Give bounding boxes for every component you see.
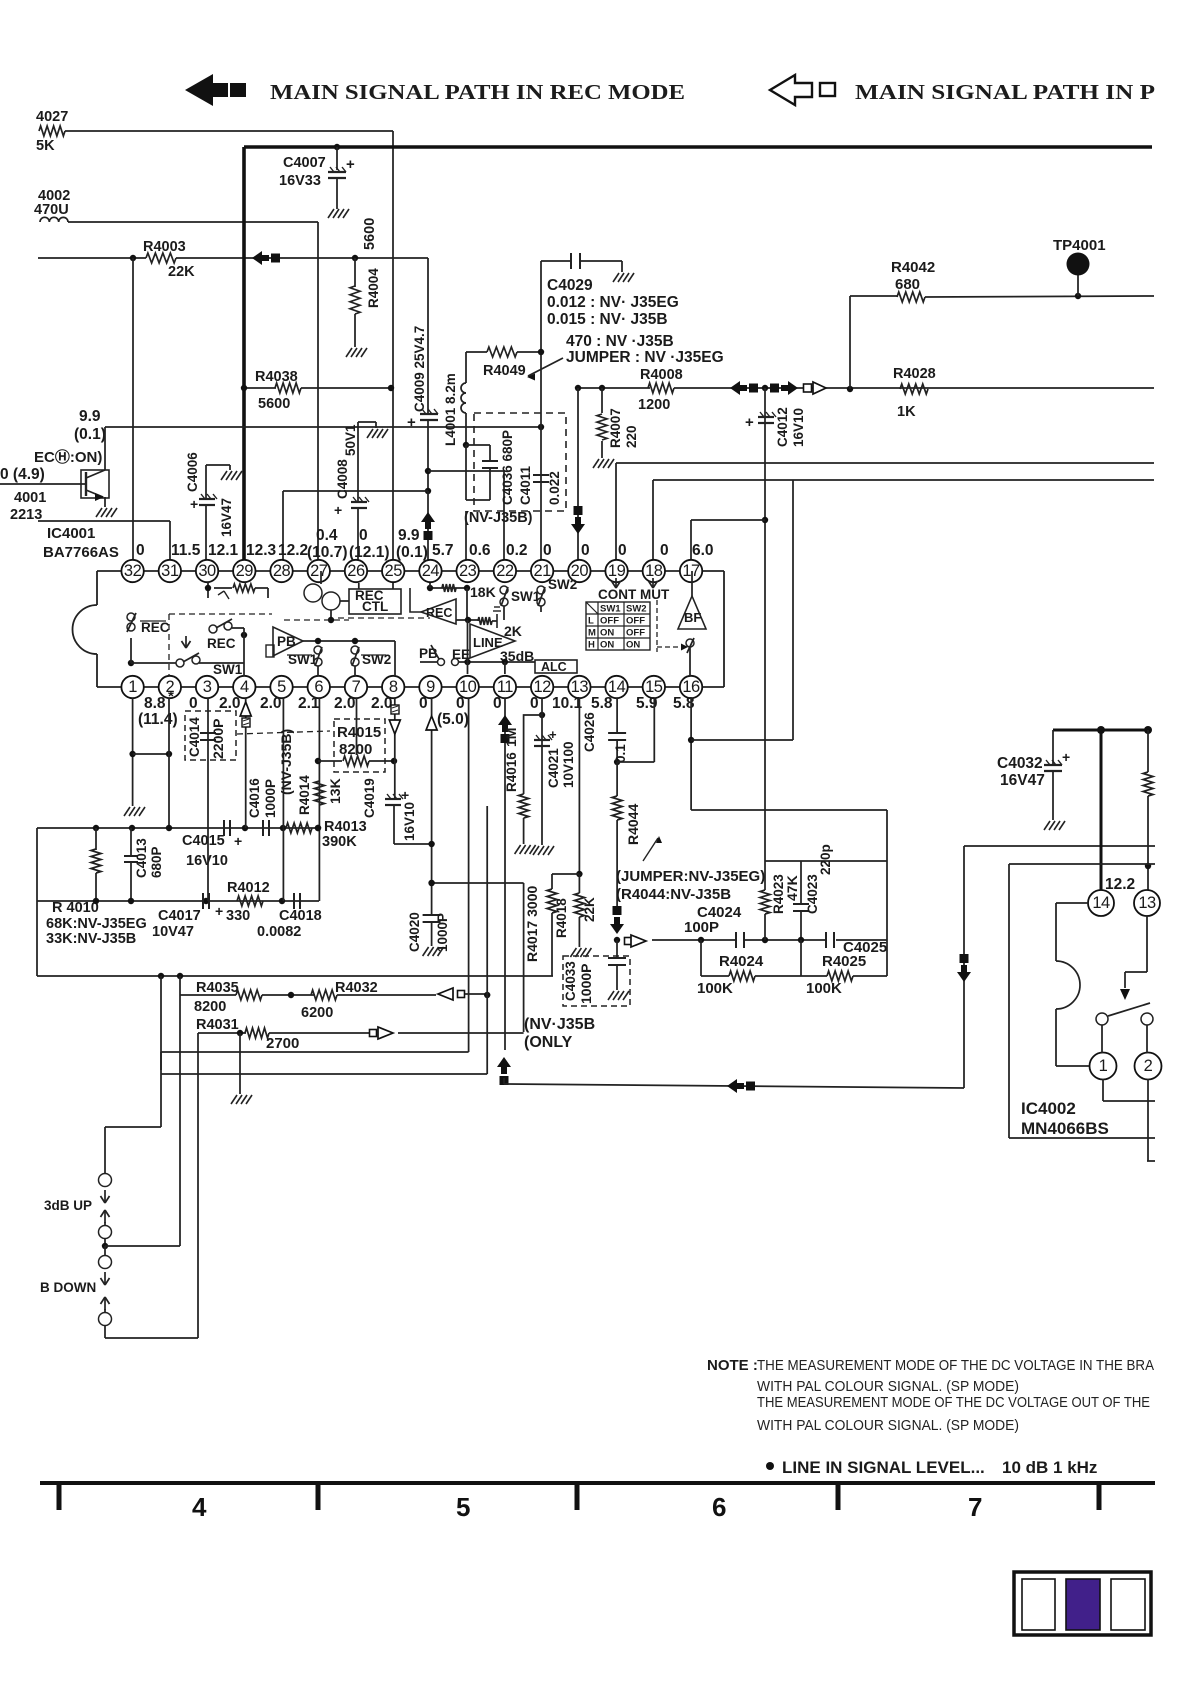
svg-text:R4012: R4012 — [227, 880, 270, 896]
svg-text:L: L — [588, 616, 594, 627]
svg-text:12.2: 12.2 — [278, 542, 308, 559]
svg-text:0: 0 — [419, 695, 428, 712]
svg-text:SW2: SW2 — [362, 652, 391, 667]
svg-text:7: 7 — [352, 678, 361, 696]
svg-text:IC4001: IC4001 — [47, 525, 95, 542]
svg-text:0.4: 0.4 — [316, 527, 338, 544]
svg-text:27: 27 — [310, 562, 328, 580]
svg-text:0.012 : NV· J35EG: 0.012 : NV· J35EG — [547, 294, 679, 311]
svg-text:R4044: R4044 — [625, 804, 641, 845]
svg-text:0: 0 — [189, 695, 198, 712]
svg-text:BF: BF — [684, 610, 701, 625]
svg-text:10.1: 10.1 — [552, 695, 583, 712]
svg-text:R 4010: R 4010 — [52, 900, 99, 916]
svg-text:1000P: 1000P — [578, 964, 594, 1004]
svg-text:9.9: 9.9 — [398, 527, 420, 544]
svg-text:31: 31 — [161, 562, 179, 580]
svg-text:1: 1 — [128, 678, 137, 696]
svg-text:CONT MUT: CONT MUT — [598, 587, 670, 602]
svg-text:R4038: R4038 — [255, 369, 298, 385]
svg-text:30: 30 — [198, 562, 216, 580]
svg-text:R4049: R4049 — [483, 363, 526, 379]
svg-text:10: 10 — [459, 678, 477, 696]
svg-text:6200: 6200 — [301, 1005, 333, 1021]
svg-text:2K: 2K — [504, 623, 522, 639]
svg-text:470 : NV ·J35B: 470 : NV ·J35B — [566, 333, 674, 350]
svg-text:(5.0): (5.0) — [437, 711, 469, 728]
svg-text:24: 24 — [422, 562, 440, 580]
svg-text:+: + — [334, 502, 342, 518]
svg-text:LINE: LINE — [473, 635, 503, 650]
svg-text:LINE IN SIGNAL LEVEL...: LINE IN SIGNAL LEVEL... — [782, 1458, 985, 1477]
svg-text:5600: 5600 — [258, 396, 290, 412]
svg-text:6.0: 6.0 — [692, 542, 714, 559]
svg-text:SW2: SW2 — [626, 604, 647, 615]
svg-text:13: 13 — [1138, 894, 1156, 912]
svg-text:18K: 18K — [470, 584, 496, 600]
svg-text:220: 220 — [624, 425, 639, 448]
svg-text:33K:NV-J35B: 33K:NV-J35B — [46, 931, 136, 947]
svg-text:32: 32 — [124, 562, 142, 580]
svg-text:2.0: 2.0 — [219, 695, 241, 712]
svg-text:C4033: C4033 — [563, 961, 578, 1001]
svg-text:B DOWN: B DOWN — [40, 1280, 96, 1295]
svg-text:H: H — [588, 640, 595, 651]
svg-text:16V33: 16V33 — [279, 173, 321, 189]
svg-text:M: M — [588, 628, 596, 639]
svg-text:MN4066BS: MN4066BS — [1021, 1119, 1109, 1138]
svg-text:4027: 4027 — [36, 109, 68, 125]
svg-text:18: 18 — [645, 562, 663, 580]
svg-text:C4008: C4008 — [335, 459, 350, 499]
svg-text:+: + — [234, 833, 242, 849]
svg-text:2213: 2213 — [10, 507, 42, 523]
svg-text:R4014: R4014 — [297, 775, 312, 815]
svg-text:+: + — [407, 414, 416, 431]
svg-text:8.8: 8.8 — [144, 695, 166, 712]
svg-text:SW1: SW1 — [213, 662, 243, 677]
svg-text:REC: REC — [141, 620, 170, 635]
svg-text:OFF: OFF — [626, 628, 645, 639]
svg-text:220p: 220p — [818, 844, 833, 875]
svg-text:4: 4 — [240, 678, 249, 696]
svg-text:26: 26 — [347, 562, 365, 580]
svg-text:C4016: C4016 — [247, 778, 262, 818]
svg-text:WITH PAL COLOUR SIGNAL. (SP MO: WITH PAL COLOUR SIGNAL. (SP MODE) — [757, 1378, 1019, 1395]
svg-text:(0.1): (0.1) — [396, 544, 428, 561]
svg-text:R4004: R4004 — [366, 268, 381, 308]
svg-text:100K: 100K — [806, 980, 842, 997]
svg-text:5: 5 — [277, 678, 286, 696]
svg-text:+: + — [549, 727, 557, 742]
svg-text:1000P: 1000P — [263, 779, 278, 818]
svg-text:(R4044:NV-J35B: (R4044:NV-J35B — [616, 886, 731, 903]
svg-text:R4031: R4031 — [196, 1017, 239, 1033]
svg-text:0: 0 — [359, 527, 368, 544]
svg-text:C4018: C4018 — [279, 908, 322, 924]
svg-text:13: 13 — [571, 678, 589, 696]
svg-text:0: 0 — [581, 542, 590, 559]
svg-text:NOTE :: NOTE : — [707, 1357, 758, 1374]
svg-text:C4032: C4032 — [997, 755, 1043, 772]
svg-text:C4006: C4006 — [185, 452, 200, 492]
svg-text:16V10: 16V10 — [402, 802, 417, 841]
svg-text:22: 22 — [496, 562, 514, 580]
svg-text:5600: 5600 — [362, 218, 378, 250]
svg-text:BA7766AS: BA7766AS — [43, 544, 119, 561]
svg-text:MAIN SIGNAL PATH IN P: MAIN SIGNAL PATH IN P — [855, 80, 1155, 104]
svg-text:OFF: OFF — [600, 616, 619, 627]
svg-text:R4016: R4016 — [504, 752, 519, 792]
svg-text:0.2: 0.2 — [506, 542, 528, 559]
svg-text:(NV-J35B): (NV-J35B) — [278, 729, 294, 795]
svg-text:11.5: 11.5 — [171, 542, 201, 559]
svg-text:SW2: SW2 — [548, 577, 577, 592]
svg-text:(0.1): (0.1) — [74, 426, 106, 443]
svg-text:0: 0 — [618, 542, 627, 559]
svg-text:25: 25 — [385, 562, 403, 580]
svg-text:REC: REC — [207, 636, 236, 651]
svg-text:MAIN SIGNAL PATH IN REC MODE: MAIN SIGNAL PATH IN REC MODE — [270, 80, 685, 104]
svg-text:(JUMPER:NV-J35EG): (JUMPER:NV-J35EG) — [616, 868, 765, 885]
svg-text:0.015 : NV· J35B: 0.015 : NV· J35B — [547, 311, 668, 328]
svg-text:22K: 22K — [168, 264, 195, 280]
svg-text:0: 0 — [493, 695, 502, 712]
svg-text:12.3: 12.3 — [246, 542, 277, 559]
svg-text:ON: ON — [600, 640, 614, 651]
svg-text:R4008: R4008 — [640, 367, 683, 383]
svg-text:C4017: C4017 — [158, 908, 201, 924]
svg-text:0.6: 0.6 — [469, 542, 491, 559]
svg-text:12: 12 — [533, 678, 551, 696]
svg-text:+: + — [215, 903, 223, 919]
svg-text:R4042: R4042 — [891, 259, 935, 276]
svg-text:+: + — [401, 787, 409, 803]
svg-text:CTL: CTL — [362, 599, 388, 614]
svg-text:+: + — [745, 414, 754, 431]
svg-text:1000P: 1000P — [435, 913, 450, 952]
svg-text:2.0: 2.0 — [260, 695, 282, 712]
svg-text:0: 0 — [530, 695, 539, 712]
svg-text:4001: 4001 — [14, 490, 46, 506]
svg-text:8: 8 — [389, 678, 398, 696]
svg-text:2.1: 2.1 — [298, 695, 320, 712]
svg-text:330: 330 — [226, 908, 250, 924]
svg-text:2: 2 — [1144, 1057, 1153, 1075]
svg-text:50V1: 50V1 — [343, 424, 358, 456]
svg-text:REC: REC — [426, 606, 452, 620]
svg-text:0 (4.9): 0 (4.9) — [0, 466, 45, 483]
svg-text:+: + — [346, 156, 355, 173]
svg-text:100P: 100P — [684, 919, 719, 936]
svg-text:47K: 47K — [784, 875, 800, 901]
svg-text:C4007: C4007 — [283, 155, 326, 171]
svg-text:0: 0 — [456, 695, 465, 712]
svg-text:14: 14 — [608, 678, 626, 696]
svg-text:8200: 8200 — [194, 999, 226, 1015]
svg-text:R4025: R4025 — [822, 953, 866, 970]
svg-text:15: 15 — [645, 678, 663, 696]
svg-text:ON: ON — [626, 640, 640, 651]
svg-text:R4003: R4003 — [143, 239, 186, 255]
svg-text:SW1: SW1 — [600, 604, 621, 615]
svg-text:23: 23 — [459, 562, 477, 580]
svg-text:IC4002: IC4002 — [1021, 1099, 1076, 1118]
svg-text:(10.7): (10.7) — [307, 544, 348, 561]
svg-text:1200: 1200 — [638, 397, 670, 413]
svg-text:6: 6 — [314, 678, 323, 696]
svg-text:16V10: 16V10 — [791, 408, 806, 447]
svg-text:ALC: ALC — [541, 660, 567, 674]
svg-text:11: 11 — [497, 678, 513, 696]
svg-text:C4013: C4013 — [134, 838, 149, 878]
svg-text:ECⒽ:ON): ECⒽ:ON) — [34, 448, 102, 466]
svg-text:C4021: C4021 — [546, 748, 561, 788]
svg-text:R4018: R4018 — [554, 898, 569, 938]
svg-text:390K: 390K — [322, 834, 357, 850]
svg-text:16: 16 — [682, 678, 700, 696]
svg-text:5: 5 — [456, 1492, 470, 1522]
svg-text:2700: 2700 — [266, 1035, 299, 1052]
svg-text:0.022: 0.022 — [547, 471, 562, 505]
svg-text:R4035: R4035 — [196, 980, 239, 996]
svg-text:22K: 22K — [582, 897, 597, 922]
svg-text:5K: 5K — [36, 138, 55, 154]
svg-text:R4024: R4024 — [719, 953, 764, 970]
svg-text:(ONLY: (ONLY — [524, 1034, 573, 1051]
svg-text:0.1: 0.1 — [613, 744, 628, 763]
svg-text:6: 6 — [712, 1492, 726, 1522]
svg-text:3dB UP: 3dB UP — [44, 1198, 92, 1213]
svg-text:R4028: R4028 — [893, 366, 936, 382]
svg-text:19: 19 — [608, 562, 626, 580]
svg-text:C4023: C4023 — [805, 874, 820, 914]
svg-text:TP4001: TP4001 — [1053, 237, 1106, 254]
svg-text:C4019: C4019 — [362, 778, 377, 818]
svg-text:7: 7 — [968, 1492, 982, 1522]
svg-text:100K: 100K — [697, 980, 733, 997]
svg-text:OFF: OFF — [626, 616, 645, 627]
svg-text:14: 14 — [1092, 894, 1110, 912]
svg-text:9: 9 — [426, 678, 435, 696]
svg-text:2.0: 2.0 — [334, 695, 356, 712]
svg-text:12.2: 12.2 — [1105, 876, 1135, 893]
svg-text:C4009 25V4.7: C4009 25V4.7 — [412, 326, 427, 412]
svg-text:+: + — [190, 496, 198, 512]
svg-text:R4007: R4007 — [608, 408, 623, 448]
svg-text:SW1: SW1 — [288, 652, 318, 667]
svg-text:C4015: C4015 — [182, 833, 225, 849]
svg-text:0: 0 — [543, 542, 552, 559]
svg-text:16V47: 16V47 — [1000, 772, 1045, 789]
svg-text:C4026: C4026 — [582, 712, 597, 752]
svg-text:2.0: 2.0 — [371, 695, 393, 712]
svg-text:68K:NV-J35EG: 68K:NV-J35EG — [46, 916, 147, 932]
svg-text:C4014: C4014 — [187, 717, 202, 757]
svg-text:C4036 680P: C4036 680P — [500, 430, 515, 505]
svg-text:0.0082: 0.0082 — [257, 924, 301, 940]
svg-text:(12.1): (12.1) — [349, 544, 390, 561]
svg-text:680P: 680P — [149, 846, 164, 878]
svg-text:10V47: 10V47 — [152, 924, 194, 940]
svg-text:10V100: 10V100 — [561, 741, 576, 788]
svg-text:(11.4): (11.4) — [138, 711, 178, 728]
svg-text:(NV·J35B: (NV·J35B — [524, 1016, 595, 1033]
svg-text:C4020: C4020 — [407, 912, 422, 952]
svg-text:R4015: R4015 — [337, 724, 381, 741]
svg-text:16V10: 16V10 — [186, 853, 228, 869]
svg-text:4: 4 — [192, 1492, 207, 1522]
svg-text:29: 29 — [236, 562, 254, 580]
svg-text:3: 3 — [203, 678, 212, 696]
svg-text:C4029: C4029 — [547, 277, 593, 294]
svg-text:1: 1 — [1099, 1057, 1108, 1075]
svg-text:2200P: 2200P — [210, 719, 226, 759]
svg-text:R4032: R4032 — [335, 980, 378, 996]
svg-text:0: 0 — [136, 542, 145, 559]
svg-text:28: 28 — [273, 562, 291, 580]
svg-text:470U: 470U — [34, 202, 69, 218]
svg-text:5.8: 5.8 — [591, 695, 613, 712]
svg-text:C4011: C4011 — [518, 465, 533, 505]
svg-text:PB: PB — [277, 634, 296, 649]
svg-text:12.1: 12.1 — [208, 542, 239, 559]
svg-text:JUMPER : NV ·J35EG: JUMPER : NV ·J35EG — [566, 349, 724, 366]
svg-text:5.7: 5.7 — [432, 542, 454, 559]
svg-text:R4017 3000: R4017 3000 — [524, 885, 540, 962]
svg-text:THE MEASUREMENT MODE OF THE DC: THE MEASUREMENT MODE OF THE DC VOLTAGE I… — [757, 1357, 1154, 1374]
svg-text:9.9: 9.9 — [79, 408, 101, 425]
svg-text:+: + — [1062, 749, 1070, 765]
svg-text:THE MEASUREMENT MODE OF THE DC: THE MEASUREMENT MODE OF THE DC VOLTAGE O… — [757, 1394, 1150, 1411]
svg-text:(NV-J35B): (NV-J35B) — [464, 510, 533, 526]
svg-text:1M: 1M — [503, 728, 519, 747]
svg-text:16V47: 16V47 — [219, 498, 234, 537]
svg-text:0: 0 — [660, 542, 669, 559]
svg-text:1K: 1K — [897, 404, 916, 420]
svg-text:13K: 13K — [327, 778, 343, 804]
svg-text:ON: ON — [600, 628, 614, 639]
svg-text:R4013: R4013 — [324, 819, 367, 835]
svg-text:WITH PAL COLOUR SIGNAL. (SP MO: WITH PAL COLOUR SIGNAL. (SP MODE) — [757, 1417, 1019, 1434]
svg-text:C4012: C4012 — [775, 407, 790, 447]
svg-text:L4001 8.2m: L4001 8.2m — [443, 373, 458, 446]
svg-text:10 dB 1 kHz: 10 dB 1 kHz — [1002, 1458, 1097, 1477]
